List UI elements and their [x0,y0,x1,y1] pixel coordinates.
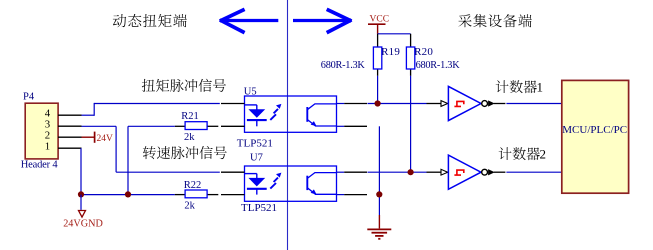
svg-text:24VGND: 24VGND [63,218,103,229]
svg-text:2: 2 [540,147,547,162]
svg-text:680R-1.3K: 680R-1.3K [416,60,461,71]
svg-text:TLP521: TLP521 [237,137,273,149]
svg-text:Header 4: Header 4 [21,160,59,171]
svg-text:2k: 2k [184,200,195,211]
svg-text:TLP521: TLP521 [241,202,277,214]
svg-text:U7: U7 [250,153,263,164]
svg-text:U5: U5 [244,86,257,97]
svg-text:24V: 24V [97,134,114,144]
svg-text:VCC: VCC [370,14,390,24]
svg-text:1: 1 [45,141,50,153]
svg-text:R22: R22 [184,180,202,191]
svg-text:MCU/PLC/PC: MCU/PLC/PC [562,124,627,136]
svg-text:R20: R20 [414,46,433,58]
svg-text:680R-1.3K: 680R-1.3K [321,60,366,71]
svg-text:P4: P4 [23,91,35,102]
svg-text:R19: R19 [381,46,400,58]
svg-text:R21: R21 [181,111,199,122]
svg-text:1: 1 [537,80,544,95]
svg-text:2k: 2k [184,132,195,143]
